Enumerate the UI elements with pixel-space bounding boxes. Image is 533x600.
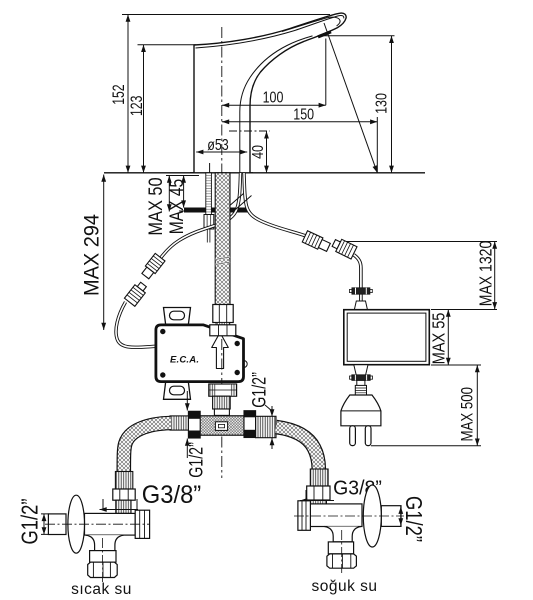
plug neck and ribs: [357, 380, 365, 387]
svg-text:G3/8”: G3/8”: [142, 481, 201, 509]
svg-text:G1/2”: G1/2”: [186, 442, 207, 478]
svg-text:sıcak su: sıcak su: [71, 581, 132, 598]
centerlines: [294, 515, 404, 517]
svg-text:40: 40: [250, 145, 268, 159]
sensor beam diagonal: [324, 23, 377, 173]
dimension 150: [222, 117, 377, 173]
svg-text:152: 152: [110, 84, 128, 104]
inlet pipe: [381, 506, 401, 527]
cable clamp on PSU cable: [350, 288, 373, 294]
control box mounting tab top: [164, 308, 191, 326]
dimension MAX 55: [431, 364, 453, 366]
svg-text:MAX 500: MAX 500: [458, 387, 477, 442]
right hose crimp and nut: [310, 469, 328, 486]
sensor window: [317, 30, 331, 38]
T right hex: [244, 411, 256, 438]
connector lower (socket): [124, 280, 148, 306]
body bar: [310, 504, 362, 527]
plug body: [341, 395, 381, 426]
G1/2 label at box outlet: [265, 405, 272, 449]
dimension 123: [138, 45, 197, 173]
PSU box: [344, 310, 430, 365]
svg-text:MAX 45: MAX 45: [165, 179, 187, 235]
dimension 152: [122, 15, 330, 173]
mounting washer (black): [184, 208, 248, 213]
strain relief into PSU: [354, 301, 367, 310]
up arrow in box: [212, 333, 229, 369]
side cap: [298, 501, 311, 531]
control box body: [244, 361, 247, 368]
cable break marks: [228, 194, 252, 210]
T-fitting bar: [200, 416, 244, 435]
hex nut: [88, 562, 118, 577]
PSU cable down to box: [354, 255, 361, 301]
box outlet knurled collar: [209, 384, 237, 396]
body bar: [85, 513, 136, 535]
svg-text:MAX 50: MAX 50: [145, 177, 167, 235]
cable clamp below PSU: [350, 375, 373, 381]
RIGHT VALVE: [294, 485, 404, 573]
hex nut: [327, 554, 357, 568]
box corner screws: [160, 329, 165, 334]
neck with fillets: [325, 527, 361, 542]
svg-text:E.C.A.: E.C.A.: [170, 355, 199, 366]
svg-text:100: 100: [263, 89, 284, 107]
side cap: [135, 510, 149, 538]
dimension 40: [229, 130, 270, 132]
counter line over faucet base: [190, 172, 253, 174]
dimension MAX 1320: [431, 309, 497, 311]
svg-text:MAX 1320: MAX 1320: [476, 241, 496, 307]
right valve G1/2 dimension: [400, 506, 402, 527]
T left crimp: [170, 416, 188, 430]
svg-text:123: 123: [128, 96, 146, 116]
connector upper (plug): [140, 253, 165, 280]
svg-text:G1/2”: G1/2”: [249, 372, 270, 408]
control box inlet hex (over bevel): [210, 325, 236, 336]
threaded stud: [204, 173, 214, 243]
left valve G1/2 dimension: [41, 514, 49, 535]
G1/2 label left of T: [186, 391, 188, 458]
svg-text:ø53: ø53: [207, 136, 229, 154]
PSU-side connector B: [331, 237, 357, 259]
svg-text:G1/2”: G1/2”: [400, 496, 425, 542]
braided riser hose under faucet: [215, 173, 230, 305]
centerlines: [45, 523, 150, 525]
wall flange: [363, 485, 381, 547]
neck with fillets: [86, 535, 124, 551]
svg-text:130: 130: [373, 93, 391, 114]
dimension 130: [322, 36, 395, 173]
wall flange: [68, 495, 85, 553]
dimension MAX 294: [103, 175, 105, 331]
dimension 100: [222, 39, 326, 106]
right braided hose: [276, 427, 319, 469]
collar: [328, 542, 353, 554]
control box mounting tab bottom: [164, 382, 191, 400]
valve centerline: [221, 339, 223, 478]
inlet pipe: [48, 514, 66, 535]
plug pins: [350, 426, 356, 446]
svg-text:G1/2”: G1/2”: [18, 498, 43, 544]
T right nipple threads: [256, 416, 276, 437]
dimension MAX 500: [371, 365, 481, 446]
faucet centerline: [221, 27, 223, 183]
left braided hose: [124, 423, 171, 472]
dimension MAX 50 / MAX 45: [166, 176, 199, 212]
svg-text:soğuk su: soğuk su: [311, 578, 377, 595]
LEFT VALVE: [45, 495, 150, 582]
left hose crimp and nut: [115, 472, 132, 490]
sensor cable (to connectors): [116, 173, 240, 347]
dimension diameter 53: [196, 151, 247, 153]
T left hex: [188, 411, 200, 438]
power cable from faucet to PSU connector: [244, 173, 306, 236]
svg-text:MAX 55: MAX 55: [429, 313, 449, 365]
collar: [90, 551, 116, 563]
MAX 1320 top extension line: [334, 241, 497, 243]
wire counter line: [104, 172, 425, 174]
svg-text:MAX 294: MAX 294: [80, 214, 104, 296]
PSU-side connector A: [302, 231, 331, 253]
strain relief below PSU: [354, 365, 368, 375]
faucet body outline: [194, 13, 346, 173]
hose end nut: [213, 305, 233, 323]
outlet threads: [213, 396, 231, 409]
svg-text:150: 150: [293, 106, 314, 124]
